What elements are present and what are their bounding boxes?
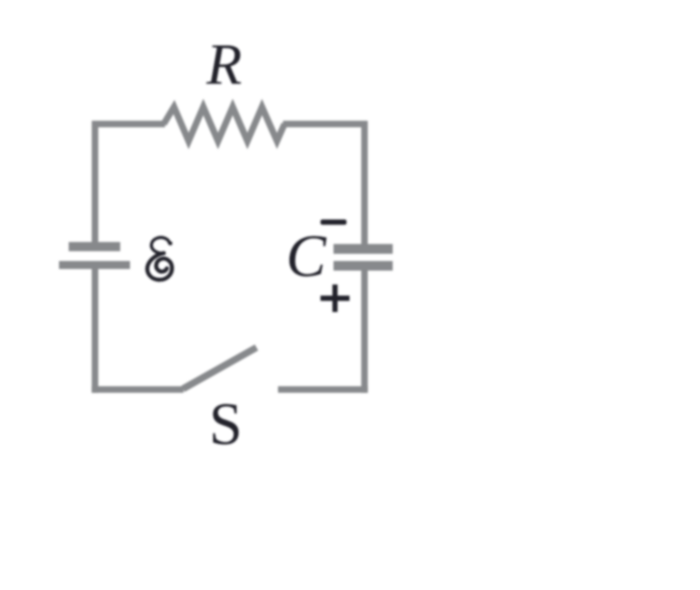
label EMF script E	[147, 237, 172, 279]
capacitor C bottom plate	[334, 261, 393, 271]
wire top-right horizontal + right vertical upper	[283, 124, 365, 249]
svg-text:C: C	[286, 223, 327, 289]
capacitor C top plate	[334, 244, 393, 254]
wire left vertical lower	[92, 266, 99, 393]
battery bottom plate	[59, 261, 130, 269]
minus sign above capacitor	[321, 220, 347, 225]
wire bottom-right	[278, 386, 368, 393]
svg-text:R: R	[206, 32, 242, 97]
svg-text:S: S	[209, 391, 242, 457]
battery top plate	[69, 242, 121, 251]
wire bottom-left	[92, 386, 184, 393]
wire left vertical upper + top-left horizontal	[95, 124, 165, 245]
plus sign below capacitor	[321, 285, 350, 313]
switch S blade	[183, 348, 257, 389]
resistor R zigzag	[164, 107, 285, 141]
wire right vertical lower	[361, 265, 368, 393]
